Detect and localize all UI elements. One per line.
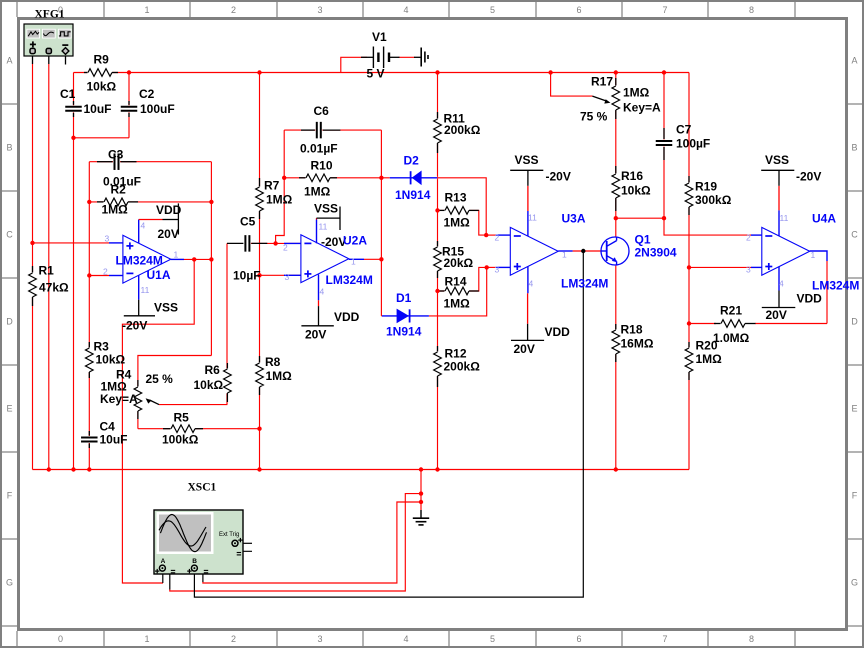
svg-text:A: A [161, 558, 166, 565]
svg-text:1: 1 [144, 5, 149, 15]
svg-text:1MΩ: 1MΩ [102, 203, 129, 217]
svg-text:2: 2 [231, 5, 236, 15]
svg-text:C1: C1 [60, 87, 76, 101]
svg-text:U4A: U4A [812, 212, 836, 226]
svg-text:R3: R3 [94, 340, 110, 354]
svg-text:3: 3 [285, 272, 290, 282]
svg-text:VSS: VSS [154, 301, 178, 315]
svg-text:4: 4 [779, 279, 784, 289]
svg-text:3: 3 [746, 265, 751, 275]
svg-text:VDD: VDD [156, 203, 182, 217]
svg-text:E: E [6, 404, 12, 414]
svg-text:200kΩ: 200kΩ [444, 123, 481, 137]
svg-text:11: 11 [141, 285, 150, 295]
svg-text:100kΩ: 100kΩ [162, 433, 199, 447]
svg-text:R19: R19 [695, 180, 717, 194]
svg-text:4: 4 [320, 287, 325, 297]
svg-text:LM324M: LM324M [812, 279, 859, 293]
svg-text:R10: R10 [311, 159, 333, 173]
svg-text:2N3904: 2N3904 [635, 246, 677, 260]
svg-text:U3A: U3A [562, 212, 586, 226]
svg-text:20V: 20V [766, 308, 787, 322]
svg-text:XFG1: XFG1 [35, 9, 65, 21]
svg-text:C: C [851, 230, 858, 240]
svg-text:C2: C2 [139, 87, 155, 101]
svg-text:VDD: VDD [334, 310, 360, 324]
svg-text:B: B [192, 558, 197, 565]
svg-text:R5: R5 [174, 411, 190, 425]
svg-text:1MΩ: 1MΩ [266, 193, 293, 207]
svg-text:VSS: VSS [314, 202, 338, 216]
svg-text:20V: 20V [305, 328, 326, 342]
svg-text:6: 6 [576, 5, 581, 15]
svg-text:G: G [851, 578, 858, 588]
svg-text:10kΩ: 10kΩ [621, 184, 651, 198]
svg-text:C6: C6 [314, 104, 330, 118]
svg-text:16MΩ: 16MΩ [621, 337, 654, 351]
svg-text:B: B [6, 143, 12, 153]
svg-text:1N914: 1N914 [386, 325, 422, 339]
svg-text:2: 2 [283, 243, 288, 253]
svg-text:Ext Trig: Ext Trig [219, 532, 239, 538]
svg-text:C5: C5 [240, 215, 256, 229]
svg-text:A: A [851, 56, 857, 66]
svg-text:A: A [6, 56, 12, 66]
svg-text:1: 1 [811, 250, 816, 260]
svg-text:1MΩ: 1MΩ [266, 369, 293, 383]
svg-text:3: 3 [317, 634, 322, 644]
svg-text:20kΩ: 20kΩ [444, 256, 474, 270]
svg-text:Key=A: Key=A [623, 101, 661, 115]
svg-text:25 %: 25 % [146, 372, 174, 386]
svg-text:LM324M: LM324M [116, 254, 163, 268]
svg-text:2: 2 [231, 634, 236, 644]
svg-text:300kΩ: 300kΩ [695, 193, 732, 207]
svg-text:D2: D2 [404, 154, 420, 168]
svg-text:2: 2 [495, 233, 500, 243]
svg-text:4: 4 [403, 5, 408, 15]
svg-text:100uF: 100uF [140, 102, 175, 116]
svg-text:7: 7 [662, 634, 667, 644]
svg-text:11: 11 [319, 222, 328, 232]
svg-text:11: 11 [528, 213, 537, 223]
svg-text:2: 2 [103, 267, 108, 277]
svg-text:F: F [7, 491, 13, 501]
svg-text:1MΩ: 1MΩ [304, 185, 331, 199]
svg-text:V1: V1 [372, 30, 387, 44]
svg-text:R12: R12 [445, 347, 467, 361]
svg-text:R21: R21 [720, 304, 742, 318]
svg-text:7: 7 [662, 5, 667, 15]
svg-text:Key=A: Key=A [100, 392, 138, 406]
svg-text:C7: C7 [676, 123, 692, 137]
svg-text:VDD: VDD [797, 292, 823, 306]
svg-text:F: F [852, 491, 858, 501]
svg-text:VSS: VSS [765, 153, 789, 167]
svg-text:6: 6 [576, 634, 581, 644]
svg-text:R13: R13 [445, 191, 467, 205]
svg-text:4: 4 [529, 279, 534, 289]
svg-text:20V: 20V [514, 342, 535, 356]
svg-text:5: 5 [490, 5, 495, 15]
svg-text:LM324M: LM324M [326, 273, 373, 287]
svg-text:3: 3 [105, 234, 110, 244]
svg-text:3: 3 [495, 265, 500, 275]
svg-text:U1A: U1A [147, 268, 171, 282]
svg-text:20V: 20V [158, 227, 179, 241]
svg-text:10kΩ: 10kΩ [194, 378, 224, 392]
svg-text:VSS: VSS [515, 153, 539, 167]
svg-text:D: D [851, 317, 858, 327]
svg-text:1MΩ: 1MΩ [696, 352, 723, 366]
svg-text:5: 5 [490, 634, 495, 644]
svg-text:VDD: VDD [545, 325, 571, 339]
svg-text:5 V: 5 V [367, 67, 385, 81]
svg-text:D1: D1 [396, 291, 412, 305]
svg-text:R1: R1 [39, 264, 55, 278]
svg-text:R8: R8 [265, 355, 281, 369]
svg-text:1MΩ: 1MΩ [444, 216, 471, 230]
svg-text:R16: R16 [621, 169, 643, 183]
svg-text:100µF: 100µF [676, 137, 710, 151]
svg-text:200kΩ: 200kΩ [444, 360, 481, 374]
svg-text:3: 3 [317, 5, 322, 15]
svg-text:R14: R14 [445, 275, 467, 289]
svg-text:1: 1 [144, 634, 149, 644]
svg-text:-20V: -20V [796, 170, 821, 184]
svg-text:10uF: 10uF [84, 102, 112, 116]
svg-text:47kΩ: 47kΩ [39, 281, 69, 295]
svg-text:4: 4 [141, 221, 146, 231]
svg-text:8: 8 [749, 634, 754, 644]
svg-text:4: 4 [403, 634, 408, 644]
svg-text:LM324M: LM324M [561, 277, 608, 291]
svg-text:10kΩ: 10kΩ [87, 80, 117, 94]
svg-text:1MΩ: 1MΩ [623, 86, 650, 100]
svg-text:R6: R6 [205, 363, 221, 377]
svg-text:R2: R2 [111, 183, 127, 197]
svg-text:E: E [851, 404, 857, 414]
svg-text:10uF: 10uF [100, 433, 128, 447]
svg-text:D: D [6, 317, 13, 327]
svg-text:1MΩ: 1MΩ [444, 297, 471, 311]
svg-text:2: 2 [746, 233, 751, 243]
svg-text:R18: R18 [621, 323, 643, 337]
svg-text:75 %: 75 % [580, 110, 608, 124]
svg-text:8: 8 [749, 5, 754, 15]
svg-text:B: B [851, 143, 857, 153]
svg-text:1.0MΩ: 1.0MΩ [713, 331, 750, 345]
svg-text:R7: R7 [264, 179, 280, 193]
svg-text:10kΩ: 10kΩ [96, 353, 126, 367]
svg-text:0: 0 [58, 634, 63, 644]
svg-text:G: G [6, 578, 13, 588]
svg-text:XSC1: XSC1 [188, 482, 217, 494]
svg-text:R17: R17 [591, 75, 613, 89]
svg-text:1: 1 [174, 250, 179, 260]
svg-text:10µF: 10µF [233, 269, 261, 283]
svg-text:0.01µF: 0.01µF [300, 142, 338, 156]
svg-text:1: 1 [562, 250, 567, 260]
svg-text:C4: C4 [100, 420, 116, 434]
svg-text:R9: R9 [94, 53, 110, 67]
svg-text:Q1: Q1 [635, 233, 651, 247]
svg-text:U2A: U2A [343, 234, 367, 248]
svg-text:1: 1 [351, 257, 356, 267]
svg-text:-20V: -20V [546, 170, 571, 184]
svg-text:C3: C3 [108, 148, 124, 162]
svg-text:11: 11 [780, 213, 789, 223]
svg-text:-20V: -20V [122, 319, 147, 333]
svg-text:C: C [6, 230, 13, 240]
svg-text:1N914: 1N914 [395, 188, 431, 202]
